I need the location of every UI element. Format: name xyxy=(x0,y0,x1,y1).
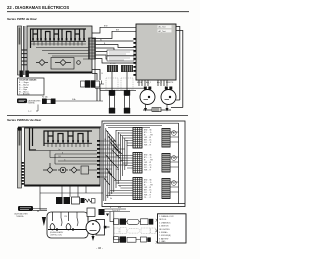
bundle wire labels xyxy=(105,139,125,200)
separator rule xyxy=(7,114,188,117)
CDI top-right labels xyxy=(158,25,172,28)
svg-text:W: W xyxy=(100,39,102,41)
svg-text:Sb: Sb xyxy=(110,198,112,200)
svg-text:4. IGNITION: 4. IGNITION xyxy=(159,226,169,228)
ground bus in assembly xyxy=(48,229,96,231)
relay box xyxy=(72,197,80,204)
motor M1 xyxy=(144,87,147,90)
svg-text:7. GROUND(B): 7. GROUND(B) xyxy=(159,235,171,237)
wire branches to row C xyxy=(106,181,133,196)
svg-text:Y .... Amarillo: Y .... Amarillo xyxy=(19,93,30,96)
svg-text:22 . DIAGRAMAS ELÉCTRICOS: 22 . DIAGRAMAS ELÉCTRICOS xyxy=(7,5,69,10)
switch terminal blobs xyxy=(32,38,85,41)
panel internal wires to right connector xyxy=(36,48,89,60)
harness bundle verticals xyxy=(100,123,133,201)
svg-text:2B PLUG: 2B PLUG xyxy=(159,219,167,221)
row B labels xyxy=(144,155,153,172)
row C right block xyxy=(162,179,170,199)
lamp housing box xyxy=(51,58,74,70)
CDI unit box xyxy=(136,24,176,80)
resistor plug xyxy=(81,198,85,203)
assembly caption xyxy=(50,231,64,237)
svg-text:9. LEAD: 9. LEAD xyxy=(159,240,166,243)
svg-text:1. CHANGE+LOCK: 1. CHANGE+LOCK xyxy=(159,215,175,218)
magneto ground arrow xyxy=(92,236,95,241)
switch panel 2 xyxy=(25,128,101,186)
magneto wires xyxy=(88,212,110,227)
plug assembly A xyxy=(114,219,119,225)
svg-text:L: L xyxy=(105,171,106,173)
lamp L4 diamond xyxy=(69,167,80,173)
svg-text:Aux_1: Aux_1 xyxy=(146,81,151,84)
svg-text:3. CHARGE(T): 3. CHARGE(T) xyxy=(159,221,171,224)
frame box right xyxy=(102,121,185,207)
switch maze wiring 2 xyxy=(30,128,93,150)
connector id B xyxy=(171,156,176,161)
svg-text:Y/L . . . P: Y/L . . . P xyxy=(144,197,152,199)
label tag (black) xyxy=(17,99,27,104)
wire N.A. xyxy=(56,100,104,102)
arrow marks to legend xyxy=(156,219,158,243)
dashed ghost connectors xyxy=(106,78,133,90)
aux box xyxy=(81,166,89,174)
frame top inner wires xyxy=(104,123,179,127)
wires bending down at panel corner xyxy=(92,70,100,102)
svg-text:(—): (—) xyxy=(28,111,32,113)
stub terminals below strip xyxy=(20,71,23,78)
svg-text:B/W: B/W xyxy=(118,152,122,154)
svg-text:TUBERIA: TUBERIA xyxy=(16,215,24,218)
legend box (wire colour code) xyxy=(18,78,45,95)
bottom wires labels xyxy=(110,207,122,212)
svg-text:Ch: Ch xyxy=(119,186,121,188)
svg-text:B/W: B/W xyxy=(104,26,108,28)
junction box xyxy=(87,208,95,217)
svg-text:Cruce de 4: Cruce de 4 xyxy=(112,210,120,212)
wire bus left pair xyxy=(24,26,25,75)
svg-text:8. BATTERY: 8. BATTERY xyxy=(159,237,169,240)
tail lamp assembly xyxy=(47,212,88,238)
switch terminal ticks xyxy=(31,41,87,45)
row A labels xyxy=(144,130,153,147)
spark plug cap P2 xyxy=(124,91,130,96)
title rule xyxy=(7,10,189,13)
panel2 right pins xyxy=(97,140,100,178)
CDI left pins xyxy=(133,38,136,76)
J2 pins xyxy=(22,162,24,185)
relay info box xyxy=(107,50,134,56)
row A right block xyxy=(162,129,170,148)
ground bar xyxy=(143,109,171,111)
svg-text:COLOR DE CABLES: COLOR DE CABLES xyxy=(19,78,37,81)
pilot lamp xyxy=(60,167,66,173)
plug wires xyxy=(95,59,144,91)
svg-text:(FLASH/GUARD/: (FLASH/GUARD/ xyxy=(50,231,64,234)
switch terminal ticks 2 xyxy=(44,143,92,147)
plug assembly B xyxy=(114,237,119,243)
svg-text:Series PW80AU de Rear: Series PW80AU de Rear xyxy=(7,118,42,122)
connector strip J1 (left narrow) xyxy=(18,26,22,75)
connector block CN1 (panel right) xyxy=(89,38,96,59)
connector strip J2 (left narrow) xyxy=(18,128,22,188)
legend box 2 xyxy=(158,214,187,243)
connector id A xyxy=(171,131,176,136)
svg-text:B: B xyxy=(110,207,111,209)
svg-text:B: B xyxy=(105,139,106,141)
plug feed wires xyxy=(110,212,120,240)
magneto M3 xyxy=(96,220,105,236)
caption text xyxy=(28,99,41,104)
rung wires xyxy=(22,50,32,65)
svg-text:AC_Test: AC_Test xyxy=(159,30,167,33)
label tag 2 xyxy=(18,206,33,211)
diagonal jogs xyxy=(104,130,122,185)
connector pair row A left block xyxy=(133,128,142,149)
svg-text:W/R . . R: W/R . . R xyxy=(144,145,152,147)
svg-text:LIGHTS-LOCK): LIGHTS-LOCK) xyxy=(50,235,62,237)
ground lug component xyxy=(152,108,161,112)
svg-text:W/R . . R: W/R . . R xyxy=(144,170,152,172)
svg-text:N.A.: N.A. xyxy=(72,98,76,101)
CDI bottom pin labels xyxy=(137,81,174,84)
svg-text:AC_Test: AC_Test xyxy=(159,26,167,29)
ground arrows xyxy=(144,108,169,112)
inner bus right xyxy=(178,123,180,204)
switch maze wiring xyxy=(31,29,87,48)
footnote mark xyxy=(36,105,38,112)
J1 label text xyxy=(19,28,21,45)
switch terminal blobs 2 xyxy=(47,140,89,143)
wires below panel2 xyxy=(40,187,103,211)
svg-text:B/W: B/W xyxy=(118,207,122,209)
wire branches to row B xyxy=(116,156,133,169)
lamp L6 coil xyxy=(66,224,71,231)
panel2 wires with labels xyxy=(36,151,97,165)
svg-text:4P 090: 4P 090 xyxy=(110,63,115,65)
connector id C xyxy=(171,181,176,186)
svg-text:Series PW50 de Rear: Series PW50 de Rear xyxy=(7,17,38,21)
arrow down xyxy=(42,217,46,226)
inline connector CN3 xyxy=(81,81,86,87)
row C labels xyxy=(144,180,153,200)
motor M2 xyxy=(165,87,168,90)
svg-text:5B LIGHTING: 5B LIGHTING xyxy=(159,229,170,231)
lamp L5 coil xyxy=(50,224,55,231)
CDI bottom pins xyxy=(139,80,167,86)
top frame wire xyxy=(18,127,22,131)
panel bottom thick border xyxy=(27,72,92,74)
svg-text:G/W: G/W xyxy=(116,169,120,171)
svg-text:- 46 -: - 46 - xyxy=(96,246,103,250)
row B right block xyxy=(162,154,170,173)
lamp L1 diamond xyxy=(36,60,48,66)
wires panel to CDI xyxy=(92,27,136,63)
symbol S1 xyxy=(77,61,81,65)
CDI right exit wires xyxy=(176,27,183,108)
spark plug cap P1 xyxy=(109,91,115,96)
connector pair row C left block xyxy=(133,178,142,200)
lamp L2 diamond xyxy=(55,60,71,66)
ghost plug assembly xyxy=(114,228,156,234)
connector pair row B left block xyxy=(133,153,142,174)
CDI2 terminals xyxy=(56,197,63,204)
handlebar switch panel xyxy=(27,26,92,73)
svg-text:6. SIGNAL+: 6. SIGNAL+ xyxy=(159,231,168,234)
lamp L3 diamond xyxy=(43,163,57,173)
wire branches to row A xyxy=(116,131,133,146)
